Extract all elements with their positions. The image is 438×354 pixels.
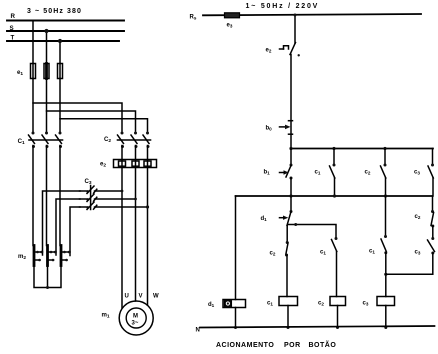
wire inside fuse 3: [59, 64, 61, 79]
contactor C1 linkage bar: [29, 139, 63, 141]
node d1 tap: [294, 223, 297, 226]
svg-text:c1: c1: [315, 170, 321, 176]
pushbutton b0 symbol: [280, 121, 293, 135]
svg-text:R: R: [11, 13, 16, 20]
svg-text:e3: e3: [227, 23, 233, 29]
node junction top rail: [294, 14, 297, 17]
wire c3 right to junction: [386, 253, 433, 274]
coil c3: [377, 297, 395, 306]
artifact dot: [298, 54, 300, 56]
wire control top rail: [203, 14, 421, 15]
node rail2 c1: [333, 194, 336, 197]
coil c2: [330, 297, 346, 306]
wire branch C to C2 pole3: [60, 119, 148, 131]
wire C3 pole3 to m2 companion 3: [70, 207, 80, 256]
node coil c2 N: [336, 326, 339, 329]
node rail2 b1: [289, 194, 292, 197]
contactor C3 pole 1: [80, 186, 124, 194]
overload relay e2 element 3: [144, 161, 151, 166]
wire C1 pole1 to m2 bar1: [32, 146, 34, 246]
node rail1 c1: [332, 147, 335, 150]
contactor C2 linkage bar: [118, 139, 151, 141]
fuse e1 pole 1: [31, 64, 36, 79]
contact c2 top: [381, 149, 387, 197]
wire C2 pole1 down to motor U: [121, 146, 123, 309]
wire rail 1: [291, 148, 433, 150]
wire c1 right to junction: [385, 253, 387, 297]
wire C1 pole3 to m2 bar3: [59, 146, 61, 246]
node coil c1 N: [287, 326, 290, 329]
svg-text:c1: c1: [369, 249, 375, 255]
contact c2 NC: [285, 241, 289, 257]
contact c2 right: [431, 196, 434, 228]
overload relay e2 element 2: [132, 161, 139, 166]
contactor C1 pole 1: [29, 132, 36, 149]
contact c3 right: [428, 226, 435, 255]
wire m2 bar2 to star bus: [47, 266, 49, 288]
node rail1 c2: [383, 147, 386, 150]
wire e2 contact to b0: [290, 55, 292, 149]
contactor C1 pole 2: [42, 132, 49, 149]
contact c3 top: [428, 149, 434, 197]
wire d1 tap to c1 branch: [288, 225, 337, 239]
wire coil c2 to N: [337, 306, 339, 328]
wire rail2 to d1 coil: [235, 196, 237, 300]
fuse e3: [225, 13, 240, 18]
contactor C1 pole 3: [56, 132, 63, 149]
wire phase S line: [7, 30, 124, 32]
wire phase R drop: [32, 21, 34, 64]
svg-text:b0: b0: [266, 126, 273, 132]
wire C3 pole1 to m2 companion 1: [43, 191, 81, 255]
svg-text:c2: c2: [318, 301, 324, 307]
wire top rail to e2 contact: [294, 16, 296, 44]
contactor C3 linkage: [90, 186, 92, 210]
m2 bar 2: [48, 246, 57, 266]
wire c1 mid to coil c2: [336, 252, 338, 297]
wire C2 pole2 down to motor V: [135, 146, 137, 302]
coil c1: [279, 297, 298, 306]
svg-text:d1: d1: [261, 216, 268, 222]
timer contact d1: [280, 196, 293, 226]
node star point: [46, 286, 49, 289]
wire coil c1 to N: [287, 306, 289, 328]
motor m1 inner circle: [126, 308, 146, 328]
svg-text:d1: d1: [208, 302, 215, 308]
wire neutral rail: [200, 326, 435, 328]
svg-text:e2: e2: [266, 48, 272, 54]
node rail2 c2: [384, 194, 387, 197]
contact c1 mid: [332, 237, 338, 252]
wire C1 pole2 to m2 bar2: [46, 146, 48, 246]
node junction T drop: [58, 39, 62, 43]
svg-text:c3: c3: [363, 301, 369, 307]
wire rail 2: [236, 195, 433, 197]
wire C3 pole2 to m2 companion 2: [56, 199, 80, 255]
overload relay e2 box: [114, 160, 157, 168]
wire branch B to C2 pole2: [47, 111, 136, 131]
svg-text:3 ~ 50Hz 380: 3 ~ 50Hz 380: [27, 8, 82, 15]
svg-text:c3: c3: [414, 170, 420, 176]
fuse e1 pole 3: [58, 64, 63, 79]
node coil d1 N: [234, 326, 237, 329]
motor m1 outer circle: [119, 301, 153, 335]
svg-text:BOTÃO: BOTÃO: [309, 340, 337, 349]
svg-text:N: N: [196, 328, 200, 334]
wire coil d1 to N: [235, 308, 237, 328]
svg-text:c3: c3: [415, 250, 421, 256]
wire phase T drop: [59, 41, 61, 64]
svg-text:Rs: Rs: [190, 15, 197, 21]
wire coil c3 to N: [385, 306, 387, 328]
svg-text:c2: c2: [365, 170, 371, 176]
thermal contact e2 symbol: [280, 43, 296, 55]
wire inside fuse 2: [45, 64, 48, 79]
contactor C2 pole 3: [143, 132, 150, 149]
wire phase S drop: [46, 31, 48, 64]
node rail1 b1: [289, 147, 292, 150]
coil d1: [223, 300, 246, 308]
contactor C3 pole 2: [80, 194, 137, 202]
svg-text:V: V: [139, 294, 143, 300]
wire fuse2 to C1 pole2: [46, 79, 48, 133]
contact c1 right: [381, 196, 387, 254]
svg-text:c2: c2: [270, 251, 276, 257]
pushbutton b1 contact: [280, 149, 293, 197]
node coil c3 N: [384, 326, 387, 329]
fuse e1 pole 2: [44, 64, 49, 79]
svg-text:c1: c1: [267, 301, 273, 307]
contactor C2 pole 2: [131, 132, 138, 149]
contactor C2 pole 1: [118, 132, 125, 149]
svg-text:ACIONAMENTO: ACIONAMENTO: [216, 342, 274, 349]
wire fuse1 to C1 pole1: [32, 79, 34, 133]
svg-text:POR: POR: [284, 342, 301, 349]
wire phase T line: [7, 40, 119, 42]
node bottom junction: [384, 273, 387, 276]
svg-text:c1: c1: [320, 250, 326, 256]
wire d1 to c2 contact: [286, 226, 288, 243]
svg-text:3~: 3~: [132, 321, 139, 327]
wire fuse3 to C1 pole3: [59, 79, 61, 133]
m2 bar 1: [34, 246, 43, 266]
contact c1 hold: [330, 149, 336, 197]
wire phase R line: [7, 20, 124, 22]
overload relay e2 element 1: [119, 161, 126, 166]
wire inside fuse 1: [32, 64, 34, 79]
wire m2 star bus: [34, 266, 61, 288]
m2 bar 3: [61, 246, 70, 266]
contactor C3 pole 3: [80, 202, 150, 210]
wire c2 NC to coil c1: [286, 255, 288, 297]
node junction S drop: [44, 29, 48, 33]
svg-text:U: U: [125, 294, 129, 300]
svg-text:1~ 50Hz / 220V: 1~ 50Hz / 220V: [246, 3, 320, 10]
svg-text:c2: c2: [415, 214, 421, 220]
svg-text:b1: b1: [264, 170, 271, 176]
svg-text:W: W: [153, 294, 159, 300]
svg-text:M: M: [133, 314, 138, 320]
wire branch A to C2 pole1: [33, 103, 122, 131]
wire C2 pole3 down to motor W: [147, 146, 149, 306]
